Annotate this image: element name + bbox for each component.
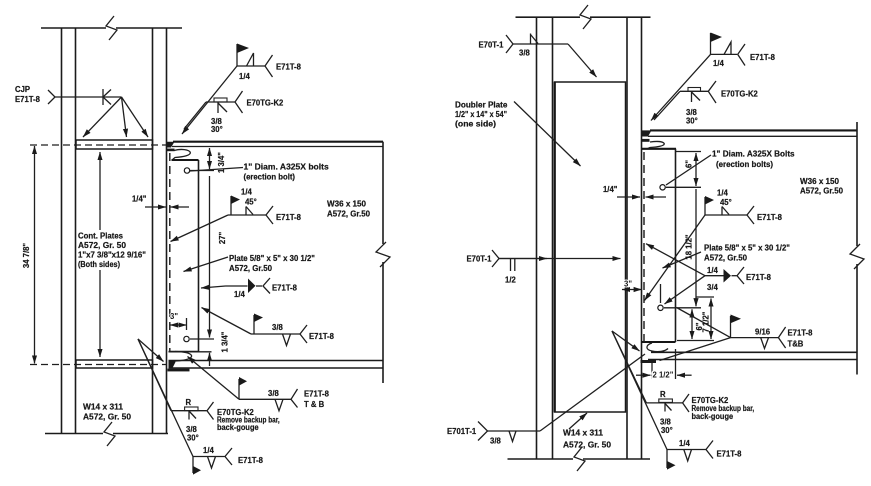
- svg-text:1/4: 1/4: [203, 445, 214, 455]
- svg-text:T&B: T&B: [788, 339, 804, 349]
- svg-text:E71T-8: E71T-8: [272, 283, 297, 293]
- svg-text:30°: 30°: [211, 124, 223, 134]
- svg-text:back-gouge: back-gouge: [217, 422, 259, 432]
- svg-text:W36 x 150: W36 x 150: [800, 176, 839, 186]
- svg-text:1"x7 3/8"x12 9/16": 1"x7 3/8"x12 9/16": [78, 250, 146, 260]
- svg-text:1 3/4": 1 3/4": [220, 332, 230, 353]
- svg-text:A572, Gr.50: A572, Gr.50: [704, 253, 747, 263]
- svg-text:18 1/2": 18 1/2": [684, 234, 694, 259]
- svg-text:(Both sides): (Both sides): [78, 259, 120, 269]
- svg-text:A572, Gr. 50: A572, Gr. 50: [563, 440, 611, 450]
- svg-text:R: R: [186, 397, 192, 407]
- svg-text:Plate 5/8" x 5" x 30 1/2": Plate 5/8" x 5" x 30 1/2": [229, 253, 315, 263]
- svg-text:3/8: 3/8: [490, 436, 501, 446]
- svg-text:30°: 30°: [686, 116, 698, 126]
- svg-text:R: R: [660, 389, 666, 399]
- svg-text:E70T-1: E70T-1: [467, 254, 492, 264]
- svg-text:E701T-1: E701T-1: [447, 426, 476, 436]
- svg-text:27": 27": [217, 232, 227, 244]
- svg-text:E71T-8: E71T-8: [757, 212, 782, 222]
- svg-text:30°: 30°: [661, 425, 673, 435]
- svg-text:E71T-8: E71T-8: [750, 52, 775, 62]
- svg-text:6": 6": [684, 160, 694, 168]
- svg-text:E71T-8: E71T-8: [15, 94, 40, 104]
- svg-text:9/16: 9/16: [755, 327, 770, 337]
- svg-text:E71T-8: E71T-8: [309, 331, 334, 341]
- svg-text:A572, Gr. 50: A572, Gr. 50: [78, 240, 126, 250]
- svg-text:W36 x 150: W36 x 150: [327, 199, 366, 209]
- svg-text:1/4": 1/4": [603, 184, 617, 194]
- svg-text:(erection bolt): (erection bolt): [244, 172, 296, 182]
- svg-text:A572, Gr. 50: A572, Gr. 50: [83, 412, 131, 422]
- svg-text:1/4: 1/4: [234, 289, 245, 299]
- svg-text:A572, Gr.50: A572, Gr.50: [800, 186, 843, 196]
- svg-text:W14 x 311: W14 x 311: [83, 402, 123, 412]
- svg-text:1/4: 1/4: [239, 71, 250, 81]
- svg-text:3": 3": [170, 311, 178, 321]
- svg-text:E71T-8: E71T-8: [304, 389, 329, 399]
- svg-text:T & B: T & B: [304, 399, 324, 409]
- svg-text:1" Diam. A325X bolts: 1" Diam. A325X bolts: [244, 162, 329, 172]
- svg-text:34 7/8": 34 7/8": [21, 243, 31, 268]
- svg-text:back-gouge: back-gouge: [692, 411, 734, 421]
- svg-text:1/4: 1/4: [707, 265, 718, 275]
- svg-text:Cont. Plates: Cont. Plates: [78, 231, 123, 241]
- svg-text:3": 3": [624, 279, 632, 289]
- svg-text:1/4": 1/4": [132, 194, 146, 204]
- svg-text:E71T-8: E71T-8: [276, 212, 301, 222]
- svg-text:1/4: 1/4: [713, 58, 724, 68]
- svg-text:E70TG-K2: E70TG-K2: [247, 98, 284, 108]
- svg-text:E71T-8: E71T-8: [238, 455, 263, 465]
- svg-text:3/8: 3/8: [272, 322, 283, 332]
- svg-text:45°: 45°: [720, 197, 732, 207]
- svg-text:3/4: 3/4: [707, 282, 718, 292]
- svg-text:1/2: 1/2: [505, 275, 516, 285]
- svg-text:3/8: 3/8: [519, 48, 530, 58]
- svg-text:E71T-8: E71T-8: [746, 272, 771, 282]
- svg-text:(one side): (one side): [455, 119, 496, 129]
- svg-text:2 1/2": 2 1/2": [653, 370, 674, 380]
- svg-text:Plate 5/8" x 5" x 30 1/2": Plate 5/8" x 5" x 30 1/2": [704, 243, 790, 253]
- svg-text:A572, Gr.50: A572, Gr.50: [327, 209, 370, 219]
- svg-text:Doubler Plate: Doubler Plate: [455, 100, 508, 110]
- svg-text:3/8: 3/8: [268, 388, 279, 398]
- svg-text:1/4: 1/4: [241, 187, 252, 197]
- svg-text:(erection bolts): (erection bolts): [716, 159, 773, 169]
- svg-text:1" Diam. A325X Bolts: 1" Diam. A325X Bolts: [712, 149, 795, 159]
- svg-text:E70T-1: E70T-1: [479, 40, 504, 50]
- svg-text:E71T-8: E71T-8: [717, 449, 742, 459]
- svg-text:A572, Gr.50: A572, Gr.50: [229, 263, 272, 273]
- svg-text:E71T-8: E71T-8: [788, 328, 813, 338]
- svg-text:1/4: 1/4: [679, 438, 690, 448]
- svg-text:45°: 45°: [245, 197, 257, 207]
- svg-text:1/4: 1/4: [717, 188, 728, 198]
- svg-text:E71T-8: E71T-8: [276, 62, 301, 72]
- svg-text:CJP: CJP: [15, 84, 30, 94]
- svg-text:30°: 30°: [187, 433, 199, 443]
- svg-text:1/2" x 14" x 54": 1/2" x 14" x 54": [455, 109, 507, 119]
- svg-text:E70TG-K2: E70TG-K2: [721, 89, 758, 99]
